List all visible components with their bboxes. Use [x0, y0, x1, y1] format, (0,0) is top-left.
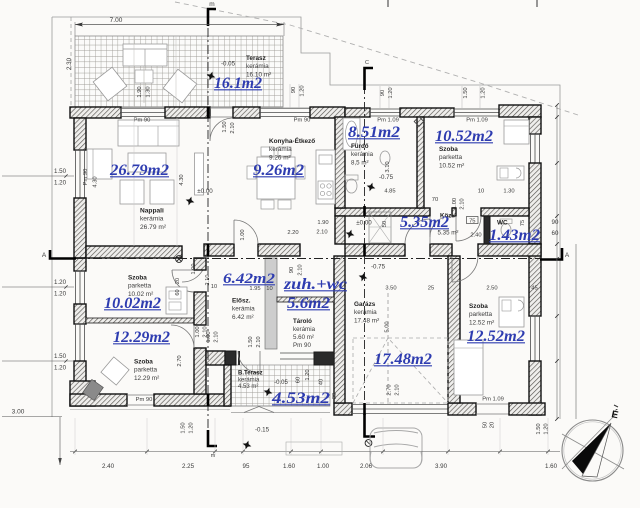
svg-text:3.50: 3.50 — [385, 286, 396, 292]
door arc kitchen-entry — [234, 220, 258, 244]
terrace sofa back line — [123, 48, 167, 50]
svg-text:1.20: 1.20 — [481, 87, 487, 98]
exterior wall bottom segment 1 — [70, 394, 127, 406]
svg-text:4.30: 4.30 — [179, 174, 185, 185]
svg-text:60: 60 — [296, 377, 302, 383]
exterior wall left segment 3 — [74, 258, 86, 271]
svg-text:10: 10 — [211, 284, 217, 290]
room label Szoba 12.52 — [469, 303, 494, 326]
svg-text:1.60: 1.60 — [545, 463, 558, 470]
svg-text:4.85: 4.85 — [384, 189, 395, 195]
svg-text:12.29 m²: 12.29 m² — [134, 375, 159, 382]
interior wall under living room A-A — [86, 246, 182, 258]
terrace coffee table — [135, 70, 153, 83]
door arc back terrace — [238, 351, 260, 373]
kitchen chairs — [247, 147, 305, 209]
svg-text:12.52 m²: 12.52 m² — [469, 319, 494, 326]
room label Terasz — [246, 55, 271, 78]
svg-text:Konyha-Étkező: Konyha-Étkező — [269, 136, 315, 145]
svg-text:2.10: 2.10 — [395, 384, 401, 395]
kitchen sink — [319, 155, 332, 164]
door Pm 1.09 bedroom 12.52 threshold — [476, 404, 509, 414]
interior wall hall south 1 — [345, 244, 405, 256]
hall attic ladder — [369, 212, 391, 243]
terrace door threshold — [210, 108, 233, 117]
svg-text:2.10: 2.10 — [298, 264, 304, 275]
svg-text:parketta: parketta — [469, 311, 493, 318]
svg-text:9.26 m²: 9.26 m² — [269, 154, 291, 161]
plot outline left — [51, 17, 53, 417]
svg-text:±0.00: ±0.00 — [197, 188, 213, 195]
svg-text:3.90: 3.90 — [435, 463, 448, 470]
back terrace edge line 1 — [231, 405, 330, 407]
svg-text:1.50: 1.50 — [54, 168, 67, 175]
door arc kitchen-terrace — [210, 118, 232, 141]
svg-text:6.42 m²: 6.42 m² — [232, 314, 254, 321]
svg-text:1.50: 1.50 — [222, 121, 228, 132]
exterior wall left segment 4 — [74, 304, 86, 324]
svg-text:Terasz: Terasz — [246, 55, 266, 62]
svg-text:4.30: 4.30 — [93, 176, 99, 187]
svg-text:parketta: parketta — [128, 283, 152, 290]
living room armchair 2 — [150, 180, 174, 204]
roof projection dashed line — [175, 2, 578, 115]
svg-text:1.20: 1.20 — [300, 85, 306, 96]
entry walkway slab — [286, 442, 342, 455]
terrace left dashed edge — [70, 17, 72, 107]
svg-text:60: 60 — [175, 289, 181, 295]
svg-text:10: 10 — [478, 189, 484, 195]
interior wall hall south 3 — [478, 244, 541, 256]
garage door swing dashed — [353, 338, 448, 403]
svg-text:1.00: 1.00 — [240, 229, 246, 240]
svg-text:A: A — [565, 252, 570, 259]
interior wall garage right — [448, 256, 460, 403]
terrace tiled slab — [75, 36, 283, 107]
room label Tároló — [293, 318, 316, 349]
wall black block backterrace left — [225, 351, 236, 365]
terrace guide line left — [133, 36, 135, 107]
svg-text:-0.05: -0.05 — [274, 380, 288, 386]
room label Szoba 10.52 — [439, 146, 464, 169]
guide line living right — [176, 118, 178, 246]
dimension 3.00 bottom-left — [2, 416, 62, 418]
interior wall hall-bedrooms upper — [194, 258, 206, 270]
svg-text:Garázs: Garázs — [354, 301, 376, 308]
svg-text:60: 60 — [552, 230, 559, 237]
svg-text:A: A — [42, 252, 47, 259]
back terrace entry step triangle — [244, 407, 274, 413]
dimension chain right side — [555, 103, 576, 421]
bedroom 12.29 chair tilted — [101, 357, 129, 385]
svg-text:2.06: 2.06 — [360, 463, 373, 470]
svg-text:1.50: 1.50 — [54, 353, 67, 360]
window bathroom Pm 1.09 — [370, 109, 400, 116]
svg-text:3.10: 3.10 — [385, 161, 391, 172]
room label Konyha-Étkező — [269, 136, 315, 161]
living room coffee table — [128, 153, 166, 172]
svg-text:90: 90 — [291, 87, 297, 93]
svg-text:7.00: 7.00 — [110, 17, 123, 24]
section line m (vertical x=208) — [208, 9, 217, 446]
kitchen stove burners — [318, 181, 333, 199]
exterior wall top segment 2 — [165, 107, 210, 118]
exterior wall left lower — [74, 361, 86, 394]
svg-text:Pm 1.09: Pm 1.09 — [377, 118, 399, 124]
bedroom 10.52 bed — [504, 120, 529, 144]
plot outline top stepped — [52, 17, 560, 419]
interior wall hall-bedrooms lower — [194, 348, 206, 394]
svg-text:Tároló: Tároló — [293, 318, 312, 325]
diamond symbol top wall — [414, 117, 424, 127]
interior wall kitchen south 2 — [258, 244, 300, 256]
room label WC — [497, 220, 508, 227]
svg-text:C: C — [365, 60, 369, 66]
window extension lines top — [290, 84, 480, 108]
room label Nappali — [140, 208, 167, 231]
svg-text:±0.00: ±0.00 — [356, 220, 372, 227]
bathroom washbasin — [380, 151, 390, 165]
svg-text:70: 70 — [432, 197, 438, 203]
svg-text:1.00: 1.00 — [452, 198, 458, 209]
exterior wall bottom garage-left block — [334, 403, 352, 415]
door arc bedroom 10.02 — [172, 270, 194, 292]
window terrace door Nappali — [121, 108, 165, 116]
svg-text:1.20: 1.20 — [54, 291, 67, 298]
svg-text:Pm 90: Pm 90 — [294, 118, 311, 124]
svg-text:4.53 m²: 4.53 m² — [238, 384, 258, 390]
top tick x537 — [536, 0, 538, 7]
window bedroom 12.29 — [76, 324, 85, 361]
light symbol bath — [365, 181, 377, 193]
terrace chair right — [163, 69, 197, 103]
living room tv cabinet — [195, 153, 204, 195]
svg-text:10.52 m²: 10.52 m² — [439, 162, 464, 169]
svg-text:50: 50 — [483, 422, 489, 428]
exterior wall bottom segment 2 — [154, 394, 230, 406]
svg-text:1.00: 1.00 — [195, 326, 201, 337]
bedroom 10.52 desk — [497, 166, 524, 180]
svg-text:-0.75: -0.75 — [379, 174, 394, 181]
back terrace left wall — [224, 365, 231, 406]
svg-text:1.50: 1.50 — [463, 87, 469, 98]
interior wall kitchen south 1 — [204, 244, 234, 256]
svg-text:kerámia: kerámia — [238, 377, 260, 383]
svg-text:2.20: 2.20 — [287, 230, 298, 236]
exterior wall left upper — [74, 118, 86, 150]
garage door opening lines — [352, 405, 448, 414]
svg-text:m: m — [209, 1, 214, 8]
svg-text:kerámia: kerámia — [140, 216, 164, 223]
svg-text:1.20: 1.20 — [544, 423, 550, 434]
section line C (vertical x=364.5) — [365, 68, 376, 437]
terrace guide line right — [175, 36, 177, 107]
svg-text:17.48 m²: 17.48 m² — [354, 317, 379, 324]
window bedroom Pm 1.09 — [454, 109, 499, 116]
svg-text:1.90: 1.90 — [317, 220, 328, 226]
svg-text:-0.75: -0.75 — [371, 264, 386, 271]
car in driveway — [370, 428, 422, 468]
svg-text:75: 75 — [520, 220, 526, 226]
svg-text:75: 75 — [469, 219, 475, 225]
svg-text:Pm 90: Pm 90 — [136, 397, 153, 403]
room label Szoba 10.02 — [128, 275, 153, 298]
svg-text:-0.15: -0.15 — [255, 427, 270, 434]
dim 75 boxed wc door — [467, 217, 479, 224]
svg-text:25: 25 — [428, 286, 434, 292]
interior partition bedrooms 10.02-12.29 — [86, 318, 194, 323]
svg-text:Pm 90: Pm 90 — [134, 118, 151, 124]
light symbol living — [184, 195, 196, 207]
bottom wall plinth line — [70, 409, 230, 411]
compass rose — [562, 414, 624, 481]
exterior wall top segment 4 — [310, 107, 345, 118]
svg-text:Szoba: Szoba — [469, 303, 488, 310]
svg-text:1.00: 1.00 — [191, 264, 197, 275]
interior wall hall-bedrooms mid — [194, 292, 206, 325]
svg-text:2.50: 2.50 — [486, 286, 497, 292]
WC toilet — [500, 219, 512, 224]
svg-text:45: 45 — [531, 286, 537, 292]
light symbol entry — [344, 228, 356, 240]
svg-text:Pm 1.09: Pm 1.09 — [466, 118, 488, 124]
wall block backterrace right — [314, 352, 334, 365]
door Pm 90 bedroom 12.29 threshold — [127, 395, 154, 405]
living room side sofa — [87, 149, 112, 179]
svg-text:8,5 m²: 8,5 m² — [351, 159, 369, 166]
light symbol garage — [357, 271, 369, 283]
bathroom bathtub — [343, 118, 360, 150]
back terrace tiled slab — [231, 365, 330, 406]
svg-text:90: 90 — [289, 267, 295, 273]
interior wall post — [452, 208, 456, 216]
dimension left bed1 window — [2, 286, 74, 288]
svg-text:2.10: 2.10 — [230, 122, 236, 133]
interior wall garage left — [334, 256, 345, 403]
exterior wall right segment 3 — [529, 244, 541, 316]
bedroom 12.29 dark cabinet — [83, 379, 104, 400]
svg-text:1.20: 1.20 — [189, 422, 195, 433]
svg-text:40: 40 — [319, 379, 325, 385]
window bedroom 10.52 right — [531, 134, 540, 163]
terrace sofa — [123, 44, 167, 66]
svg-text:1.50: 1.50 — [536, 423, 542, 434]
svg-text:kerámia: kerámia — [293, 326, 316, 333]
svg-text:1.30: 1.30 — [503, 189, 514, 195]
svg-text:1.20: 1.20 — [54, 180, 67, 187]
back terrace edge line 2 — [231, 412, 330, 414]
door arc bedroom 10.52 — [456, 216, 481, 241]
built-in cabinet entry hall — [265, 258, 277, 349]
exterior wall bottom-right corner block — [509, 403, 545, 415]
exterior wall bottom-left corner block — [70, 381, 95, 406]
window living room left — [76, 150, 85, 198]
light symbol back terrace — [262, 386, 274, 398]
svg-text:Fürdő: Fürdő — [351, 143, 369, 150]
kitchen counter — [316, 150, 335, 204]
svg-text:2.10: 2.10 — [214, 331, 220, 342]
door arc bedroom 12.29 — [171, 325, 194, 348]
top tick x388 — [387, 0, 389, 7]
svg-text:1.20: 1.20 — [54, 365, 67, 372]
bedroom 10.02 desk — [166, 287, 187, 314]
window kitchen — [260, 108, 310, 116]
svg-text:3.00: 3.00 — [12, 409, 25, 416]
svg-text:kerámia: kerámia — [351, 151, 374, 158]
svg-text:20: 20 — [490, 422, 496, 428]
svg-text:kerámia: kerámia — [232, 306, 255, 313]
garage center dashed line — [387, 293, 389, 403]
storage window south — [280, 353, 314, 359]
exterior wall top-right corner block — [499, 105, 541, 117]
door arc bedroom 12.52 — [452, 256, 478, 282]
interior wall bath-bedroom — [417, 117, 424, 208]
svg-text:1.50: 1.50 — [248, 336, 254, 347]
dimension chain bottom — [70, 418, 560, 455]
svg-text:5.00: 5.00 — [385, 321, 391, 332]
svg-text:50: 50 — [382, 221, 388, 227]
bedroom 12.52 bed — [454, 340, 483, 395]
svg-text:kerámia: kerámia — [246, 63, 269, 70]
bathroom toilet — [345, 175, 358, 180]
svg-text:kerámia: kerámia — [354, 309, 377, 316]
guide line living left — [133, 118, 135, 246]
svg-text:2.25: 2.25 — [182, 463, 195, 470]
svg-text:Elősz.: Elősz. — [232, 298, 251, 305]
room label Előszoba — [232, 298, 255, 321]
interior wall hall left — [335, 216, 345, 244]
room label Fürdő — [351, 143, 374, 166]
svg-text:1.50: 1.50 — [181, 422, 187, 433]
exterior wall bottom segment 3 — [448, 403, 476, 415]
svg-text:95: 95 — [243, 463, 250, 470]
exterior wall top segment 5 — [345, 108, 370, 117]
room label Garázs — [354, 301, 379, 324]
dimension left bed2 window — [2, 360, 74, 362]
room label Szoba 12.29 — [134, 359, 159, 382]
svg-text:2.40: 2.40 — [470, 233, 481, 239]
svg-text:2.70: 2.70 — [387, 384, 393, 395]
room label B.Terasz — [238, 371, 263, 391]
svg-text:2.10: 2.10 — [316, 230, 327, 236]
svg-text:Szoba: Szoba — [128, 275, 147, 282]
interior wall WC left — [484, 216, 490, 244]
exterior wall right lower — [529, 361, 541, 415]
section line C end circle — [365, 440, 372, 447]
circled-x symbol wall A — [176, 256, 183, 263]
dimension 7.00 top line — [75, 22, 284, 36]
window bedroom 12.52 right — [531, 316, 540, 361]
interior wall hall south 2 — [430, 244, 452, 256]
interior wall bath south — [335, 208, 430, 216]
svg-text:2.10: 2.10 — [460, 198, 466, 209]
svg-text:2.10: 2.10 — [256, 336, 262, 347]
svg-text:Pm 90: Pm 90 — [293, 342, 311, 349]
svg-text:90: 90 — [380, 90, 386, 96]
exterior wall left middle — [74, 198, 86, 258]
exterior wall right upper — [529, 117, 541, 134]
svg-text:Nappali: Nappali — [140, 208, 164, 215]
kitchen dining table — [257, 157, 295, 199]
svg-text:Szoba: Szoba — [134, 359, 153, 366]
svg-text:2.70: 2.70 — [177, 355, 183, 366]
door arc bathroom — [430, 216, 451, 237]
svg-text:Pm 1.09: Pm 1.09 — [482, 397, 504, 403]
terrace chair left — [93, 67, 127, 101]
svg-text:1.60: 1.60 — [283, 463, 296, 470]
svg-text:1.00: 1.00 — [317, 463, 330, 470]
svg-text:kerámia: kerámia — [269, 146, 292, 153]
storage south wall piece — [238, 351, 240, 365]
svg-text:2.30: 2.30 — [66, 57, 73, 70]
living room armchair 1 — [120, 180, 144, 204]
svg-text:Pm 90: Pm 90 — [83, 169, 89, 186]
svg-text:WC: WC — [497, 220, 508, 227]
interior wall kitchen-bath — [335, 117, 345, 208]
svg-text:-0.05: -0.05 — [221, 61, 236, 68]
dimension left living window — [2, 175, 74, 177]
partition shower-storage — [277, 297, 334, 302]
living room sofa — [118, 120, 179, 146]
svg-text:5.60 m²: 5.60 m² — [293, 334, 314, 341]
svg-text:parketta: parketta — [134, 367, 158, 374]
interior wall bedroom 10.52 south — [481, 208, 529, 216]
exterior wall top-left segment — [70, 107, 121, 118]
window bedroom 10.02 — [76, 271, 85, 304]
svg-text:parketta: parketta — [439, 154, 463, 161]
svg-text:Szoba: Szoba — [439, 146, 458, 153]
svg-text:B.Terasz: B.Terasz — [238, 371, 263, 377]
svg-text:1.00: 1.00 — [206, 331, 212, 342]
room label Közl — [440, 213, 455, 220]
bedroom 12.52 desk — [499, 297, 524, 327]
svg-text:1.20: 1.20 — [305, 369, 311, 380]
svg-text:26.79 m²: 26.79 m² — [140, 224, 167, 231]
wall entry-backterrace block — [206, 351, 225, 365]
light symbol terrace — [205, 70, 217, 82]
svg-text:30: 30 — [332, 393, 338, 399]
exterior wall right segment 2 — [529, 163, 541, 244]
exterior wall top segment 6 — [400, 108, 454, 117]
svg-text:2.40: 2.40 — [102, 463, 115, 470]
door arc hall-entry — [405, 219, 430, 244]
svg-text:1.90: 1.90 — [137, 86, 143, 97]
svg-text:1.20: 1.20 — [54, 279, 67, 286]
svg-text:90: 90 — [552, 219, 559, 226]
section line A-A (horizontal y=258.5) — [50, 248, 562, 260]
door arc bedroom 10.02 top — [182, 258, 206, 282]
svg-text:20: 20 — [175, 278, 181, 284]
light symbol yard — [241, 439, 253, 451]
terrace guide line mid — [143, 66, 145, 103]
exterior wall top segment 3 — [233, 107, 260, 118]
terrace sofa cushion split — [144, 49, 146, 66]
svg-text:1.30: 1.30 — [146, 86, 152, 97]
